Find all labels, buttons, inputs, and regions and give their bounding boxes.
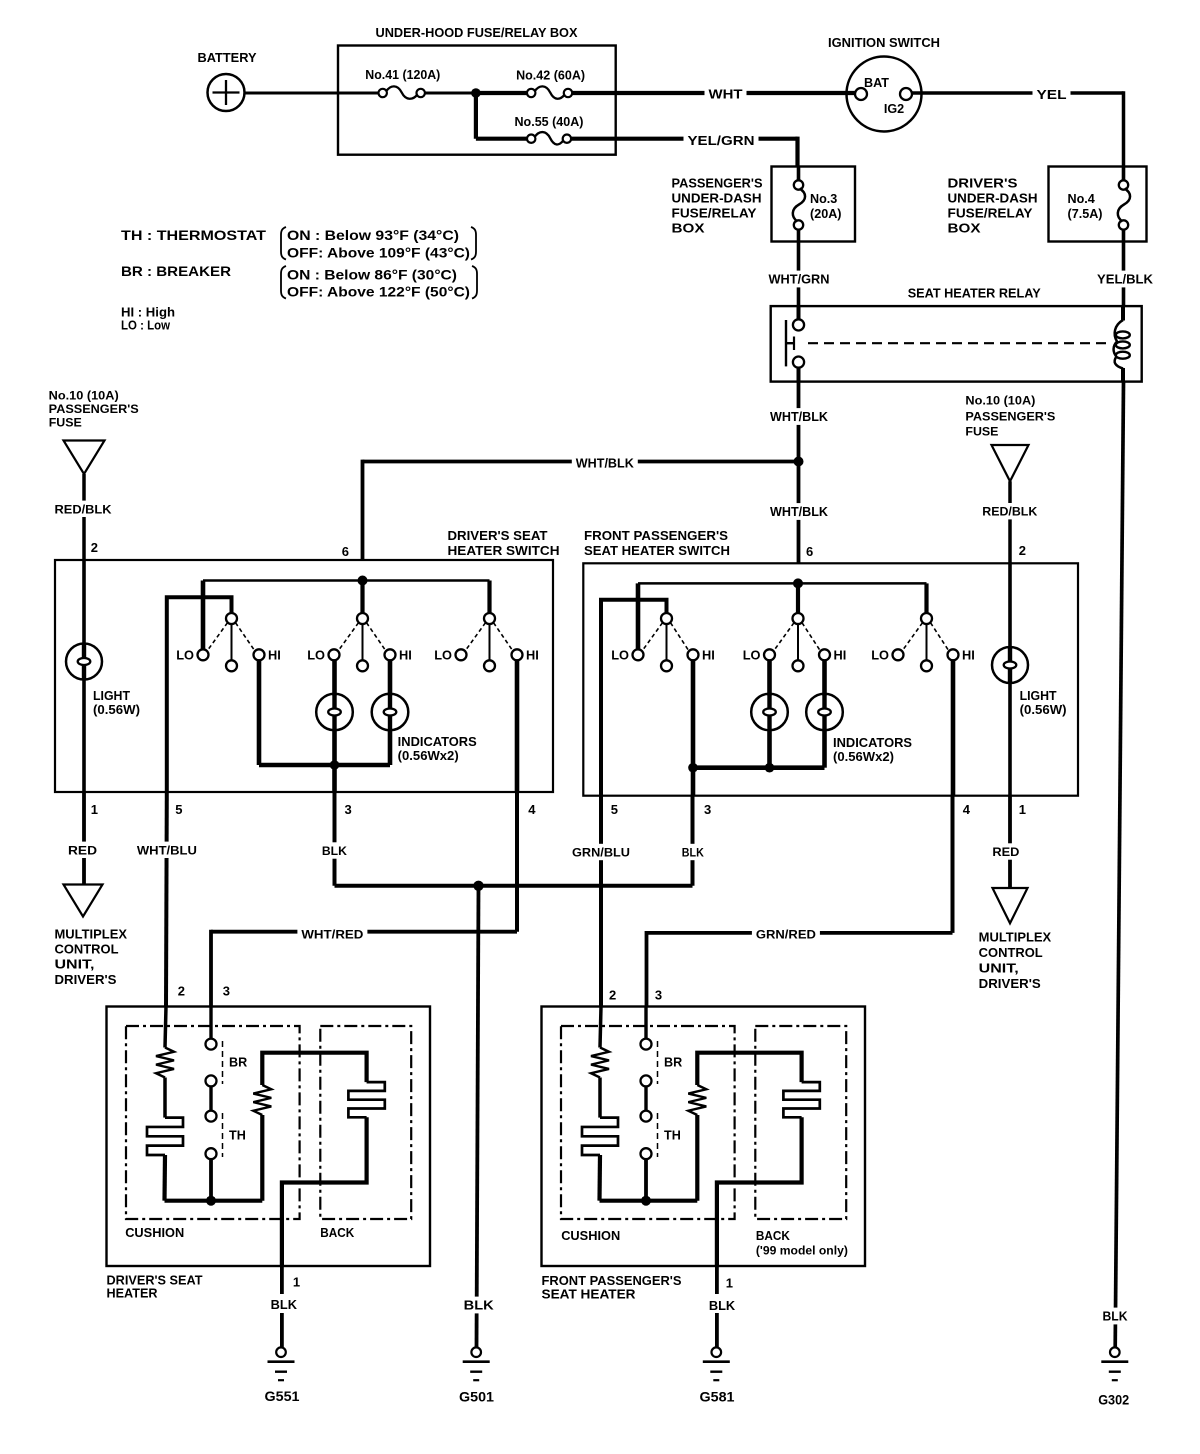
- svg-text:BAT: BAT: [864, 76, 889, 90]
- svg-text:No.41 (120A): No.41 (120A): [365, 68, 440, 82]
- svg-text:FUSE/RELAY: FUSE/RELAY: [672, 206, 757, 221]
- svg-text:1: 1: [293, 1275, 300, 1290]
- svg-text:LO: LO: [307, 647, 325, 662]
- svg-text:DRIVER'S: DRIVER'S: [55, 972, 117, 987]
- svg-text:No.10 (10A): No.10 (10A): [49, 388, 119, 402]
- svg-text:3: 3: [345, 802, 352, 817]
- svg-text:BACK: BACK: [756, 1228, 791, 1243]
- svg-text:3: 3: [704, 802, 711, 817]
- svg-text:BLK: BLK: [271, 1297, 298, 1312]
- svg-text:YEL: YEL: [1037, 87, 1067, 102]
- svg-text:PASSENGER'S: PASSENGER'S: [672, 176, 763, 191]
- svg-text:1: 1: [1019, 802, 1026, 817]
- svg-text:HI: HI: [962, 647, 975, 662]
- svg-text:G551: G551: [265, 1389, 300, 1404]
- svg-text:LIGHT: LIGHT: [93, 688, 130, 703]
- svg-text:G501: G501: [459, 1390, 494, 1405]
- svg-text:3: 3: [223, 984, 230, 999]
- svg-text:LO: LO: [871, 647, 889, 662]
- svg-text:2: 2: [1019, 543, 1026, 558]
- svg-text:CONTROL: CONTROL: [979, 945, 1043, 960]
- svg-text:SEAT HEATER RELAY: SEAT HEATER RELAY: [908, 286, 1041, 301]
- svg-text:RED: RED: [68, 843, 97, 857]
- svg-text:G581: G581: [700, 1390, 735, 1405]
- svg-text:INDICATORS: INDICATORS: [833, 735, 912, 750]
- svg-text:HI: HI: [834, 647, 847, 662]
- svg-text:TH : THERMOSTAT: TH : THERMOSTAT: [121, 228, 267, 243]
- svg-text:IG2: IG2: [884, 102, 904, 116]
- svg-text:TH: TH: [664, 1129, 681, 1143]
- svg-text:2: 2: [91, 540, 98, 555]
- svg-text:UNDER-DASH: UNDER-DASH: [948, 191, 1038, 206]
- svg-text:(0.56W): (0.56W): [1020, 702, 1067, 717]
- svg-text:BLK: BLK: [464, 1298, 495, 1313]
- svg-text:(0.56W): (0.56W): [93, 702, 140, 717]
- svg-text:DRIVER'S SEAT: DRIVER'S SEAT: [448, 528, 548, 543]
- svg-text:4: 4: [963, 802, 971, 817]
- svg-text:(0.56Wx2): (0.56Wx2): [398, 748, 459, 763]
- svg-text:CONTROL: CONTROL: [55, 942, 119, 957]
- svg-text:BLK: BLK: [709, 1298, 736, 1313]
- svg-text:GRN/BLU: GRN/BLU: [572, 845, 630, 859]
- svg-text:YEL/GRN: YEL/GRN: [688, 133, 755, 148]
- svg-text:4: 4: [528, 802, 536, 817]
- svg-text:ON : Below 93°F (34°C): ON : Below 93°F (34°C): [287, 228, 459, 243]
- svg-text:WHT/BLK: WHT/BLK: [770, 409, 829, 424]
- svg-text:RED/BLK: RED/BLK: [55, 502, 112, 516]
- svg-text:HI: HI: [526, 647, 539, 662]
- svg-text:No.3: No.3: [810, 192, 837, 206]
- svg-text:FRONT PASSENGER'S: FRONT PASSENGER'S: [584, 528, 728, 543]
- svg-text:UNDER-DASH: UNDER-DASH: [672, 191, 762, 206]
- svg-text:INDICATORS: INDICATORS: [398, 734, 477, 749]
- svg-text:5: 5: [611, 802, 618, 817]
- svg-text:No.4: No.4: [1068, 192, 1095, 206]
- svg-text:BACK: BACK: [320, 1225, 355, 1240]
- svg-text:PASSENGER'S: PASSENGER'S: [965, 410, 1055, 424]
- svg-text:UNIT,: UNIT,: [979, 961, 1019, 976]
- svg-text:1: 1: [91, 802, 98, 817]
- svg-text:DRIVER'S: DRIVER'S: [979, 976, 1041, 991]
- svg-text:RED: RED: [992, 845, 1019, 859]
- svg-text:BOX: BOX: [672, 221, 706, 236]
- svg-text:G302: G302: [1098, 1393, 1129, 1408]
- svg-text:No.55 (40A): No.55 (40A): [515, 115, 584, 129]
- svg-text:(20A): (20A): [810, 207, 842, 221]
- svg-text:OFF: Above 109°F (43°C): OFF: Above 109°F (43°C): [287, 246, 470, 261]
- svg-text:MULTIPLEX: MULTIPLEX: [979, 930, 1052, 945]
- svg-text:LO: LO: [611, 647, 629, 662]
- svg-text:FUSE: FUSE: [965, 425, 998, 439]
- svg-text:2: 2: [178, 984, 185, 999]
- svg-text:(7.5A): (7.5A): [1068, 207, 1103, 221]
- svg-text:HI: HI: [268, 647, 281, 662]
- svg-text:RED/BLK: RED/BLK: [982, 505, 1037, 519]
- svg-text:WHT/GRN: WHT/GRN: [769, 272, 830, 287]
- svg-text:BR : BREAKER: BR : BREAKER: [121, 264, 231, 279]
- svg-text:5: 5: [175, 802, 182, 817]
- svg-text:2: 2: [609, 988, 616, 1003]
- svg-text:('99 model only): ('99 model only): [756, 1244, 848, 1258]
- svg-text:GRN/RED: GRN/RED: [756, 928, 816, 942]
- svg-text:WHT: WHT: [709, 87, 743, 102]
- svg-text:CUSHION: CUSHION: [125, 1225, 184, 1240]
- svg-text:UNIT,: UNIT,: [55, 957, 95, 972]
- svg-text:ON : Below 86°F (30°C): ON : Below 86°F (30°C): [287, 268, 457, 283]
- svg-text:SEAT HEATER: SEAT HEATER: [542, 1287, 636, 1302]
- svg-text:BLK: BLK: [682, 845, 704, 859]
- svg-text:WHT/RED: WHT/RED: [301, 927, 363, 941]
- svg-text:(0.56Wx2): (0.56Wx2): [833, 749, 894, 764]
- svg-text:BATTERY: BATTERY: [198, 50, 257, 65]
- svg-text:WHT/BLK: WHT/BLK: [576, 455, 635, 470]
- svg-text:LO: LO: [176, 647, 194, 662]
- svg-text:SEAT HEATER SWITCH: SEAT HEATER SWITCH: [584, 543, 730, 558]
- svg-text:DRIVER'S: DRIVER'S: [948, 176, 1019, 191]
- svg-text:LO: LO: [434, 647, 452, 662]
- svg-text:WHT/BLU: WHT/BLU: [137, 843, 197, 857]
- svg-text:HI: HI: [399, 647, 412, 662]
- svg-text:LO: LO: [743, 647, 761, 662]
- svg-text:HI : High: HI : High: [121, 306, 175, 320]
- svg-text:BR: BR: [664, 1056, 682, 1070]
- svg-text:BLK: BLK: [1103, 1309, 1129, 1324]
- svg-text:FUSE/RELAY: FUSE/RELAY: [948, 206, 1033, 221]
- svg-text:6: 6: [342, 544, 349, 559]
- svg-text:OFF: Above 122°F (50°C): OFF: Above 122°F (50°C): [287, 285, 470, 300]
- svg-text:BLK: BLK: [322, 844, 347, 858]
- svg-text:No.42 (60A): No.42 (60A): [516, 69, 585, 83]
- svg-text:MULTIPLEX: MULTIPLEX: [55, 927, 128, 942]
- svg-text:LIGHT: LIGHT: [1020, 688, 1057, 703]
- svg-text:PASSENGER'S: PASSENGER'S: [49, 402, 139, 416]
- svg-text:No.10 (10A): No.10 (10A): [965, 394, 1035, 408]
- svg-text:1: 1: [726, 1276, 733, 1291]
- svg-text:HEATER SWITCH: HEATER SWITCH: [448, 543, 560, 558]
- svg-text:CUSHION: CUSHION: [561, 1228, 620, 1243]
- svg-text:3: 3: [655, 988, 662, 1003]
- svg-text:FUSE: FUSE: [49, 415, 82, 429]
- svg-text:YEL/BLK: YEL/BLK: [1097, 272, 1154, 287]
- svg-text:UNDER-HOOD FUSE/RELAY BOX: UNDER-HOOD FUSE/RELAY BOX: [376, 25, 578, 40]
- svg-text:HEATER: HEATER: [107, 1286, 158, 1301]
- svg-text:LO : Low: LO : Low: [121, 319, 170, 333]
- svg-text:BR: BR: [229, 1056, 247, 1070]
- svg-text:HI: HI: [702, 647, 715, 662]
- svg-text:WHT/BLK: WHT/BLK: [770, 504, 829, 519]
- svg-text:6: 6: [806, 544, 813, 559]
- svg-text:TH: TH: [229, 1129, 246, 1143]
- svg-text:BOX: BOX: [948, 221, 982, 236]
- svg-text:IGNITION SWITCH: IGNITION SWITCH: [828, 35, 940, 50]
